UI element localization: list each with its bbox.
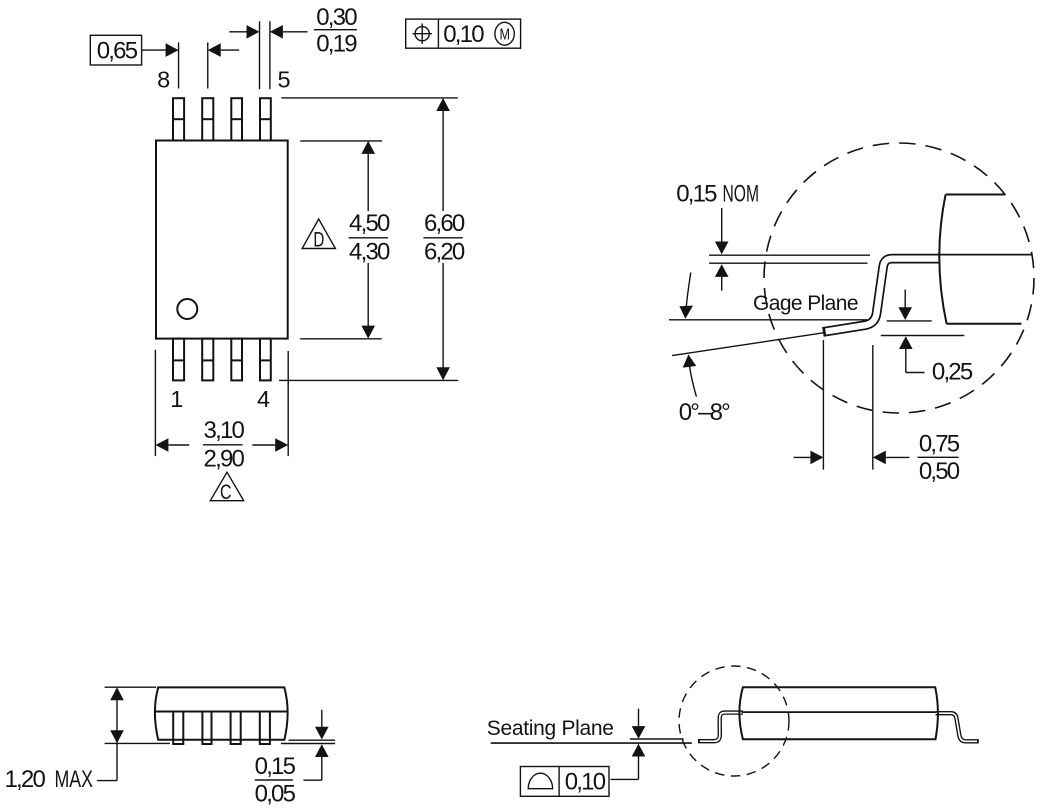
dimension 0,75/0,50: right arrow (873, 451, 910, 465)
seating plane line (491, 742, 692, 744)
dimension 0,30/0,19: right arrow (270, 25, 308, 39)
dimension 0,25: reference lines (887, 320, 932, 322)
dimension 3,10/2,90: right arrow (252, 438, 288, 452)
dimension 1,20 MAX: extension lines (105, 686, 157, 688)
svg-text:0,05: 0,05 (255, 781, 296, 808)
svg-text:0,30: 0,30 (316, 4, 357, 31)
left lead (outlined) (698, 713, 746, 742)
svg-text:0,75: 0,75 (919, 430, 960, 457)
dimension text 0,15 over 0,05 (255, 753, 296, 808)
svg-text:0,65: 0,65 (97, 37, 138, 64)
dimension text 4,50 over 4,30 (349, 210, 390, 265)
dimension 0,65: second arrow (208, 43, 239, 57)
svg-text:4,30: 4,30 (349, 238, 390, 265)
svg-text:0,19: 0,19 (316, 31, 357, 58)
svg-text:M: M (499, 27, 510, 44)
dimension 4,50/4,30: vertical dimension line with arrows (361, 141, 375, 339)
detail lead (outlined S-bend) (823, 259, 940, 332)
svg-text:0,25: 0,25 (932, 359, 973, 386)
svg-text:0,10: 0,10 (565, 769, 606, 796)
dimension 0,15 NOM arrows (715, 208, 729, 291)
pin 1 index circle (177, 299, 197, 319)
dimension 0,75/0,50: extension lines (822, 340, 824, 470)
long side body (739, 687, 938, 739)
pin 2 (202, 339, 213, 381)
note triangle D (302, 219, 335, 251)
svg-text:NOM: NOM (723, 180, 760, 207)
side view lead 3 (231, 712, 241, 745)
svg-text:6,60: 6,60 (424, 210, 465, 237)
gage plane line (669, 319, 867, 321)
detail body outline (939, 195, 1021, 324)
svg-text:D: D (313, 228, 324, 251)
svg-text:4,50: 4,50 (349, 210, 390, 237)
svg-text:0,15: 0,15 (255, 753, 296, 780)
right lead (outlined) (933, 713, 979, 741)
pin 7 (202, 98, 213, 140)
dimension text 3,10 over 2,90 (203, 417, 245, 472)
dimension text 0,30 over 0,19 (314, 4, 357, 58)
detail dashed circle (764, 143, 1034, 413)
dimension text 6,60 over 6,20 (423, 210, 465, 265)
svg-text:Gage Plane: Gage Plane (753, 292, 858, 315)
svg-text:0,10: 0,10 (443, 21, 484, 48)
dimension 0,25: arrows and leader (898, 290, 924, 373)
svg-text:6,20: 6,20 (424, 238, 465, 265)
seating plane detail dashed circle (679, 666, 789, 776)
0-8 degree slope line (672, 332, 828, 355)
feature control frame: true position 0,10 M (406, 19, 521, 48)
seating plane arrows and leader (611, 709, 646, 780)
pin 3 (231, 339, 242, 381)
side view lead 2 (202, 712, 211, 745)
pin 4 (260, 339, 271, 381)
svg-text:4: 4 (257, 386, 270, 412)
dimension 0,65: extension line pin8 center (178, 42, 180, 88)
svg-text:8: 8 (157, 66, 170, 92)
svg-text:5: 5 (278, 66, 291, 92)
dimension text 0,75 over 0,50 (918, 430, 960, 484)
pin 1 (173, 339, 184, 381)
pin 5 (260, 98, 271, 140)
side view lead 4 (260, 712, 270, 745)
svg-text:0,15: 0,15 (676, 180, 717, 207)
svg-text:C: C (220, 481, 232, 504)
svg-text:3,10: 3,10 (204, 417, 245, 444)
lead top surface line through body (937, 254, 1032, 256)
dimension 6,60/6,20: extension lines (281, 97, 458, 99)
side view body (155, 687, 288, 739)
feature control frame: profile of surface 0,10 (520, 767, 609, 797)
leader arrow to slope line (683, 354, 697, 396)
dimension 0,75/0,50: left arrow (794, 451, 824, 465)
dimension 4,50/4,30: extension lines (300, 140, 382, 142)
side view lead 1 (173, 712, 183, 745)
dimension 1,20 MAX: vertical line with arrows and leader (97, 687, 124, 780)
dimension 0,65: leader arrow (142, 43, 179, 57)
dimension 0,30/0,19: left arrow (229, 25, 259, 39)
svg-text:Seating Plane: Seating Plane (487, 717, 614, 740)
lead thickness reference lines (709, 254, 870, 256)
dimension 0,15/0,05: reference lines (289, 739, 336, 741)
dimension 3,10/2,90: extension lines (154, 350, 156, 456)
svg-text:MAX: MAX (55, 766, 94, 793)
pin 6 (231, 98, 242, 140)
dimension 0,65 pitch: box (90, 35, 141, 65)
side view parting line (155, 711, 287, 713)
dimension 0,15/0,05: arrows and leader (303, 710, 328, 780)
dimension 6,60/6,20: vertical dimension line with arrows (436, 98, 450, 380)
dimension 0,30/0,19: extension lines at pin5 edges (259, 21, 261, 89)
dimension 0,65: extension line pin7 center (207, 42, 209, 88)
long side body mid line (742, 711, 937, 713)
package body (top view) (156, 141, 288, 339)
svg-text:2,90: 2,90 (204, 445, 245, 472)
svg-text:1,20: 1,20 (5, 766, 46, 793)
dimension 3,10/2,90: left arrow (155, 438, 189, 452)
tolerance zone upper line (630, 738, 684, 740)
svg-text:0°–8°: 0°–8° (679, 399, 730, 426)
leader arrow to gage plane (679, 273, 693, 319)
svg-text:0,50: 0,50 (919, 458, 960, 485)
pin 8 (173, 98, 184, 140)
svg-text:1: 1 (170, 386, 183, 412)
note triangle C (210, 472, 243, 504)
